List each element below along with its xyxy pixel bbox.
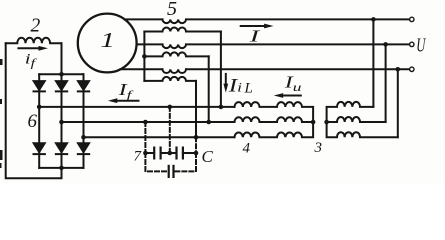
node: capacitor mid junction [168,151,173,156]
wire rail C [84,136,235,138]
rectifier bridge 6 : top bus [39,73,83,75]
terminal 3 [410,67,414,71]
transformer T1 primary winding [163,19,186,23]
capacitor C1 [145,148,169,159]
wire: field feed to bridge [61,43,63,74]
wire: secondary 2 drop [208,56,210,122]
wire: phase C from generator [120,68,162,70]
node: secondary 3 to rail C [194,135,199,140]
scan artifact marks on left edge [0,59,3,168]
bridge leg 3 [83,74,85,168]
wire: dashed drop phase A to capacitors [169,107,171,153]
generator 1 (machine circle) [78,14,137,73]
terminal 2 [410,42,414,46]
wire: drop from line 3 [397,69,399,137]
arrow i_f [18,46,48,51]
svg-text:2: 2 [31,15,41,36]
bridge bottom bus [39,167,83,169]
node: bridge AC tap A [37,105,42,110]
svg-text:3: 3 [314,140,323,156]
node: bottom bus junction [59,166,64,171]
reactor 4 phase A coils [235,102,314,122]
wire: secondary 3 drop [195,81,197,137]
arrow I [241,24,274,29]
bridge leg 2 [61,74,63,168]
output line 1 [186,18,410,20]
output line 3 [186,68,410,70]
winding 3 phase A coil [327,102,374,122]
node: secondary star junction [142,54,147,59]
node: line 1 branch [371,17,376,22]
arrow I_f [108,98,139,103]
wire rail B [62,121,235,123]
node: reactor 4 star point [311,120,316,125]
svg-text:1: 1 [100,28,115,52]
node: secondary 1 to rail A [219,105,224,110]
svg-text:6: 6 [28,111,38,132]
wire: dashed drop phase B to capacitors [144,122,146,153]
bridge leg 1 [38,74,40,168]
reactor 4 phase B coils [235,117,314,122]
winding 3 phase C coil [327,122,398,137]
arrow I_u [274,93,301,98]
field winding 2 (coil) [6,38,62,44]
terminal 1 [410,17,414,21]
transformer T1 secondary winding [144,28,221,32]
node: top bus junction [59,72,64,77]
diode VD5 [56,143,67,154]
winding 3 phase B coil [327,117,386,122]
transformer T2 primary winding [163,44,186,48]
node: winding 3 star point [324,120,329,125]
svg-text:U: U [416,34,426,57]
wire: dashed drop phase C to capacitors [195,137,197,153]
wire: drop from line 2 [385,44,387,122]
transformer T3 primary winding [163,69,186,73]
capacitor C3 (bottom, dashed loop) [145,153,196,177]
transformer T2 secondary winding [144,52,208,56]
wire: secondary 1 drop [220,32,222,107]
reactor 4 phase C coils [235,122,314,137]
node: capacitor tap on rail B [143,120,148,125]
svg-text:L: L [244,81,253,97]
svg-text:C: C [202,147,214,166]
wire: secondary star bus [143,32,145,81]
node: bridge AC tap C [81,135,86,140]
node: bridge AC tap B [59,120,64,125]
node: line 2 branch [383,42,388,47]
node: capacitor left junction [143,151,148,156]
diode VD3 [78,81,89,91]
svg-text:4: 4 [243,140,251,156]
node: line 3 branch [396,67,401,72]
output line 2 [186,43,410,45]
arrow I_i [223,74,228,93]
wire: phase B from generator [137,43,163,45]
diode VD6 [78,143,89,154]
diode VD1 [34,81,45,91]
svg-text:I: I [249,26,261,45]
diode VD4 [34,143,45,154]
capacitor C2 [170,148,196,159]
node: capacitor tap on rail A [168,105,173,110]
node: capacitor right junction [194,151,199,156]
diode VD2 [56,81,67,91]
wire rail A [39,106,234,108]
wire: phase A from generator [125,18,163,20]
svg-text:5: 5 [167,0,177,20]
wire: drop from line 1 [372,19,374,107]
transformer T3 secondary winding [144,77,196,81]
node: secondary 2 to rail B [206,120,211,125]
wire: field left return [6,43,62,178]
